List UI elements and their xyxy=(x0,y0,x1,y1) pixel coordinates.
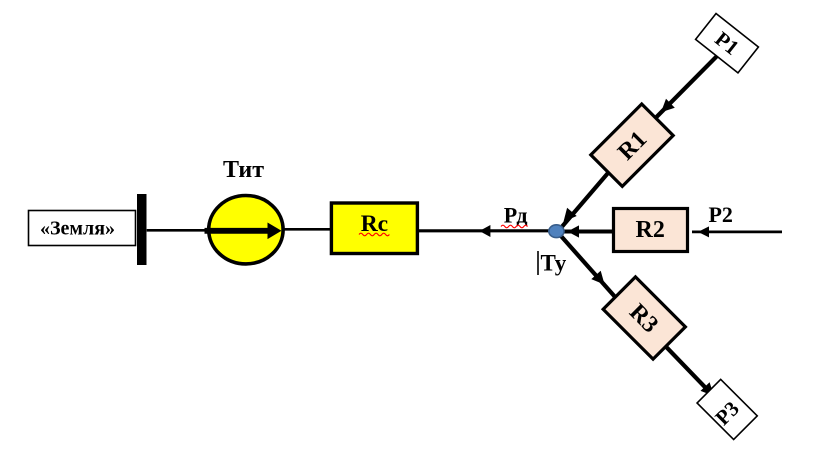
box P1 xyxy=(696,14,759,73)
generator circle Тит xyxy=(209,196,283,264)
wire from ground bar to generator circle xyxy=(147,229,210,232)
wire R1 to node Ту xyxy=(557,145,632,233)
wire R2 to node Ту xyxy=(564,230,613,234)
arrowhead into R1 xyxy=(661,99,675,113)
red squiggle under Rc xyxy=(359,233,389,236)
node Ту (blue junction dot) xyxy=(549,225,564,238)
svg-text:Рд: Рд xyxy=(504,203,528,228)
arrowhead into P3 xyxy=(701,382,715,396)
arrowhead into R2 xyxy=(698,226,709,237)
svg-text:«Земля»: «Земля» xyxy=(40,218,115,240)
ground box «Земля» xyxy=(29,211,136,246)
wire P2 into R2 xyxy=(692,231,782,234)
resistor R1 xyxy=(591,104,673,186)
resistor Rc xyxy=(331,203,417,254)
svg-text:Ту: Ту xyxy=(541,251,567,276)
wire R3 to P3 xyxy=(648,328,727,410)
resistor R3 xyxy=(603,277,685,359)
resistor R2 xyxy=(614,209,688,252)
svg-text:P2: P2 xyxy=(708,202,732,227)
wire P1 to R1 xyxy=(655,54,719,119)
red squiggle under Рд xyxy=(501,225,528,228)
wire Rc to node Ту xyxy=(419,229,551,232)
thick arrow inside circle xyxy=(205,228,269,234)
wire node Ту to R3 xyxy=(557,232,620,303)
arrowhead into node from R2 xyxy=(568,225,580,237)
arrowhead into R3 xyxy=(591,271,604,285)
svg-text:Тит: Тит xyxy=(223,157,264,183)
ground bar xyxy=(137,194,147,265)
svg-text:R2: R2 xyxy=(636,217,665,243)
arrowhead Рд pointing left xyxy=(479,225,490,237)
wire from generator circle to Rc xyxy=(284,228,332,231)
arrowhead into node from R1 xyxy=(564,208,577,222)
box P3 xyxy=(697,379,757,439)
cursor bar before Ту xyxy=(537,251,539,275)
